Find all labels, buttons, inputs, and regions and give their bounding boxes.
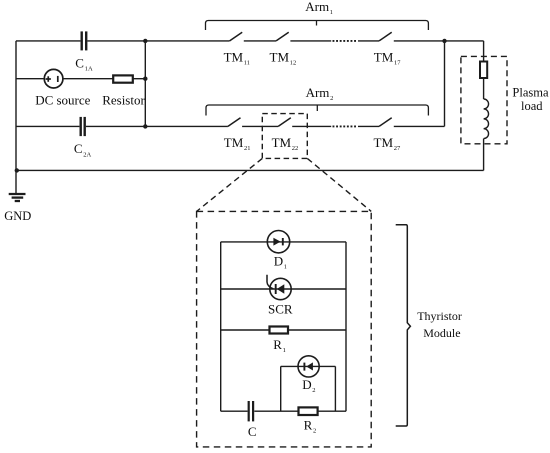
switch TM21	[228, 118, 241, 127]
svg-text:2: 2	[330, 95, 333, 102]
svg-text:Arm: Arm	[306, 85, 330, 100]
bracket thyristor module	[396, 225, 411, 426]
svg-text:17: 17	[394, 59, 401, 66]
wire C2A rail to TM21	[86, 125, 228, 127]
svg-text:1: 1	[284, 263, 287, 270]
wire before TM27	[358, 125, 379, 127]
ground	[9, 194, 26, 201]
svg-text:D: D	[302, 377, 311, 392]
svg-text:11: 11	[244, 59, 250, 66]
brace Arm1	[206, 21, 429, 31]
DC source circle	[44, 69, 63, 88]
wire module top	[221, 241, 346, 243]
svg-text:21: 21	[244, 145, 251, 152]
svg-text:GND: GND	[4, 209, 31, 223]
wire mid rail left	[16, 78, 44, 80]
diode D2 cathode bar	[303, 363, 305, 371]
wire arm output vertical	[444, 41, 446, 127]
capacitor C1A	[82, 31, 87, 50]
wire module bottom right	[254, 410, 346, 412]
thyristor SCR triangle	[277, 284, 285, 293]
diode D1 triangle	[273, 238, 280, 246]
svg-text:TM: TM	[374, 135, 394, 150]
wire left vertical	[15, 41, 17, 171]
brace Arm2	[206, 105, 428, 116]
diode D1 cathode bar	[282, 238, 284, 245]
wire plasma branch top	[483, 41, 485, 62]
svg-text:R: R	[273, 337, 282, 352]
dashed box plasma load	[461, 56, 507, 143]
thyristor SCR cathode bar	[275, 284, 277, 294]
wire after TM12	[290, 40, 331, 42]
switch TM12	[276, 32, 289, 41]
svg-text:D: D	[274, 253, 283, 268]
resistor plasma	[480, 62, 487, 79]
svg-text:2: 2	[313, 428, 316, 435]
resistor R2	[299, 407, 318, 415]
svg-text:Resistor: Resistor	[102, 93, 145, 108]
svg-text:TM: TM	[270, 49, 290, 64]
svg-text:C: C	[75, 56, 84, 71]
svg-text:1: 1	[283, 347, 286, 354]
dashed box thyristor module	[197, 211, 372, 447]
switch TM11	[230, 32, 243, 41]
wire between TM11 and TM12	[244, 40, 276, 42]
svg-text:27: 27	[394, 145, 401, 152]
svg-text:2: 2	[312, 387, 315, 394]
svg-text:2A: 2A	[83, 151, 91, 158]
svg-text:load: load	[521, 99, 543, 113]
switch TM17	[379, 32, 392, 41]
wire plasma branch bottom	[483, 139, 485, 171]
dotted continuation arm1	[333, 40, 358, 42]
wire top rail to TM11	[87, 40, 229, 42]
wire R1 row	[221, 329, 346, 331]
dashed zoom line right	[307, 158, 371, 211]
node junction x145 top	[143, 39, 147, 43]
svg-text:DC source: DC source	[35, 93, 90, 108]
wire resistor to junction	[133, 78, 146, 80]
svg-text:Plasma: Plasma	[512, 86, 549, 100]
thyristor SCR circle	[270, 278, 291, 299]
svg-text:1: 1	[330, 9, 333, 16]
node junction ground	[15, 168, 19, 172]
svg-text:22: 22	[292, 145, 299, 152]
capacitor C	[249, 401, 253, 421]
wire C2A rail left	[16, 125, 79, 127]
wire after TM22	[292, 125, 331, 127]
DC source minus bar	[57, 76, 59, 82]
dashed zoom line left	[197, 158, 263, 211]
node junction x145 mid	[143, 77, 147, 81]
wire top rail left segment	[16, 40, 80, 42]
resistor (main)	[113, 75, 133, 82]
wire between TM21 and TM22	[242, 125, 278, 127]
svg-text:1A: 1A	[85, 66, 93, 73]
diode D1 circle	[267, 231, 289, 253]
svg-text:R: R	[304, 418, 313, 433]
wire top rail right segment	[394, 40, 484, 42]
wire SCR row	[221, 288, 346, 290]
switch TM27	[379, 118, 392, 127]
inductor plasma coil	[484, 99, 489, 139]
brace Arm2 center tick	[316, 105, 318, 111]
wire subloop top	[281, 365, 336, 367]
wire junction vertical	[144, 41, 146, 127]
resistor R1	[270, 327, 289, 334]
svg-text:TM: TM	[224, 49, 244, 64]
diode D2 triangle	[306, 362, 313, 370]
wire mid rail to resistor	[63, 78, 113, 80]
svg-text:TM: TM	[374, 49, 394, 64]
wire before TM17	[358, 40, 379, 42]
node junction arm output	[442, 39, 446, 43]
dotted continuation arm2	[333, 125, 358, 127]
wire plasma resistor to coil	[483, 78, 485, 99]
wire module right vertical	[345, 242, 347, 411]
svg-text:Thyristor: Thyristor	[417, 309, 462, 323]
ground stem	[15, 170, 17, 193]
dashed box TM22	[262, 114, 307, 159]
thyristor SCR gate	[267, 275, 273, 289]
svg-text:C: C	[74, 141, 83, 156]
svg-text:Module: Module	[423, 326, 460, 340]
diode D2 circle	[298, 356, 319, 377]
brace Arm1 center tick	[316, 21, 318, 26]
switch TM22	[278, 118, 291, 127]
svg-text:Arm: Arm	[305, 0, 329, 14]
wire subloop left vertical	[280, 366, 282, 411]
svg-text:TM: TM	[272, 135, 292, 150]
wire module left vertical	[220, 242, 222, 411]
svg-text:12: 12	[290, 59, 297, 66]
svg-text:TM: TM	[224, 135, 244, 150]
svg-text:SCR: SCR	[268, 301, 293, 316]
node junction x145 bottom	[143, 124, 147, 128]
wire subloop right vertical	[334, 366, 336, 411]
DC source plus symbol	[46, 76, 51, 82]
wire arm2 right segment	[394, 125, 445, 127]
svg-text:C: C	[248, 424, 257, 439]
capacitor C2A	[81, 117, 85, 136]
wire bottom rail	[16, 169, 484, 171]
wire module bottom left	[221, 410, 248, 412]
